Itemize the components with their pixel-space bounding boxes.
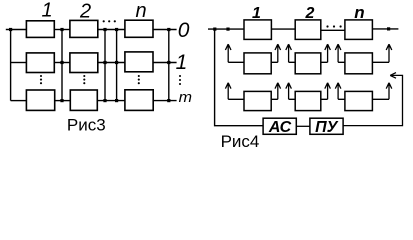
- wire left bus to AC: [215, 29, 264, 126]
- wire vertical V2: [104, 30, 106, 101]
- svg-text:m: m: [179, 89, 192, 106]
- svg-text:Рис3: Рис3: [67, 116, 106, 135]
- junction row1 right: [167, 61, 170, 64]
- wire row2 left: [11, 100, 27, 102]
- junction row2 right: [167, 99, 170, 102]
- block top col1: [244, 20, 271, 40]
- antenna r3 a1: [225, 83, 244, 100]
- block top coln: [345, 20, 373, 40]
- wire row2 c1-c2: [54, 100, 70, 102]
- svg-text:1: 1: [41, 0, 52, 22]
- svg-text:ПУ: ПУ: [315, 119, 339, 136]
- block top col2: [295, 20, 321, 40]
- junction row1 V1: [60, 61, 63, 64]
- antenna r2 a3: [286, 44, 295, 62]
- svg-text:1: 1: [252, 5, 261, 22]
- wire row1 right stub: [153, 62, 177, 64]
- svg-text:n: n: [135, 0, 146, 22]
- block row3 coln: [345, 91, 373, 110]
- vdots col2: [83, 75, 85, 77]
- block row3 col2: [295, 91, 321, 110]
- block row1 col2: [70, 53, 98, 73]
- block row2 col2: [295, 53, 321, 74]
- svg-text:АС: АС: [268, 119, 292, 136]
- wire AC-PU: [296, 125, 310, 127]
- wire top b2-bn: [321, 29, 345, 31]
- svg-text:n: n: [354, 3, 364, 22]
- block row1 coln: [125, 52, 153, 72]
- ellipsis top cols: [103, 20, 105, 22]
- wire feedback: [343, 75, 402, 125]
- antenna r3 a2: [271, 83, 280, 100]
- antenna r2 a5: [335, 44, 345, 62]
- svg-text:Рис4: Рис4: [221, 132, 260, 151]
- junction row0 V1: [60, 28, 63, 31]
- block row2 col1: [244, 53, 271, 74]
- block row2 col1: [26, 90, 54, 110]
- block row1 col1: [26, 53, 54, 73]
- wire top right: [372, 28, 398, 30]
- wire row1 c2-cn: [98, 62, 125, 64]
- junction row2 V3: [115, 99, 118, 102]
- junction row0 V2: [103, 28, 106, 31]
- wire top left: [208, 28, 244, 30]
- block row0 coln: [125, 20, 153, 37]
- junction row2 V1: [60, 99, 63, 102]
- svg-text:2: 2: [305, 5, 315, 22]
- antenna r2 a1: [225, 44, 244, 62]
- antenna r2 a4: [321, 44, 331, 62]
- wire row2 right stub: [153, 100, 177, 102]
- antenna r3 a6: [372, 83, 391, 100]
- antenna r2 a2: [271, 44, 280, 62]
- wire row1 c1-c2: [54, 62, 70, 64]
- junction row1 V3: [115, 61, 118, 64]
- wire row0 right stub: [153, 29, 177, 31]
- junction row0 right: [167, 28, 170, 31]
- junction row0 bus: [9, 28, 12, 31]
- wire right bus: [168, 30, 170, 101]
- arrowhead feedback: [390, 73, 396, 79]
- junction top d1: [213, 28, 216, 31]
- svg-text:1: 1: [176, 51, 188, 74]
- wire row1 left: [11, 62, 27, 64]
- block row3 col1: [244, 91, 271, 110]
- block row2 col2: [70, 90, 97, 110]
- junction top d2: [226, 28, 229, 31]
- block row2 coln: [125, 90, 153, 111]
- svg-text:2: 2: [79, 0, 91, 22]
- junction row0 V3: [115, 28, 118, 31]
- vdots labels: [179, 75, 181, 77]
- block row2 coln: [345, 53, 373, 74]
- wire vertical V3: [116, 30, 118, 101]
- antenna r3 a3: [286, 83, 295, 100]
- vdots col1: [40, 75, 42, 77]
- wire vertical V1: [61, 30, 63, 101]
- vdots coln: [138, 75, 140, 77]
- antenna r3 a5: [335, 83, 345, 100]
- svg-text:0: 0: [178, 19, 190, 42]
- wire row2 c2-cn: [98, 100, 125, 102]
- wire left bus: [10, 30, 12, 101]
- wire top b1-b2: [271, 28, 295, 30]
- wire row0 c2-cn: [98, 29, 125, 31]
- antenna r3 a4: [321, 83, 331, 100]
- block row0 col1: [26, 21, 54, 38]
- junction top right: [387, 27, 390, 30]
- junction row2 V2: [103, 99, 106, 102]
- junction row1 V2: [103, 61, 106, 64]
- wire row0 left stub: [6, 29, 27, 31]
- block AC: [263, 118, 296, 134]
- block row0 col2: [70, 20, 98, 37]
- block PU: [310, 118, 343, 134]
- wire row0 c1-c2: [54, 29, 70, 31]
- antenna r2 a6: [372, 44, 391, 62]
- ellipsis top row: [326, 25, 328, 27]
